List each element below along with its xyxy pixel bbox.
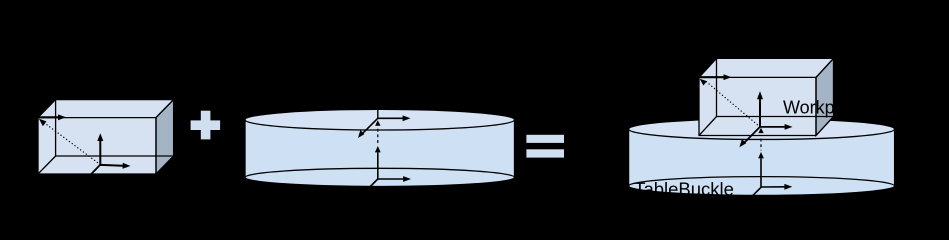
svg-text:TableBuckle: TableBuckle xyxy=(634,179,734,200)
svg-text:Workpiece: Workpiece xyxy=(783,98,868,118)
